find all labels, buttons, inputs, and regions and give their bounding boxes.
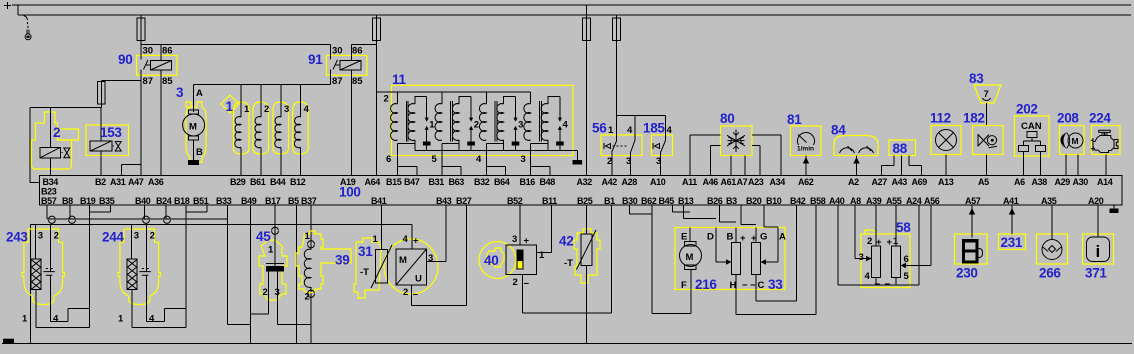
svg-text:1/min: 1/min	[797, 146, 814, 153]
svg-text:39: 39	[335, 253, 349, 268]
connector on ladder 1 under B8	[69, 216, 76, 223]
pedal pot track 1	[872, 246, 881, 278]
connector on ladder 1 under B24	[164, 216, 171, 223]
svg-text:2: 2	[150, 231, 155, 242]
svg-text:B63: B63	[449, 177, 465, 187]
svg-text:B15: B15	[386, 177, 402, 187]
pin 2 wire to B27	[412, 205, 467, 305]
svg-text:2: 2	[513, 277, 518, 288]
wire B57	[46, 205, 48, 219]
node 30-rail to relays	[141, 44, 331, 46]
svg-text:B33: B33	[216, 196, 232, 206]
air mass meter 31	[354, 205, 467, 305]
lambda probe 243	[6, 224, 89, 327]
svg-text:1: 1	[22, 314, 28, 325]
wire B58 down	[815, 205, 817, 314]
internal ground rail	[415, 150, 578, 152]
svg-text:231: 231	[1001, 235, 1023, 250]
fuse feeding ignition coils / relay 91 coil, down to A64	[375, 15, 377, 176]
svg-text:A32: A32	[577, 177, 593, 187]
svg-text:A57: A57	[965, 196, 981, 206]
svg-text:3: 3	[859, 252, 864, 263]
M/U transducer	[396, 249, 427, 285]
svg-text:B64: B64	[494, 177, 510, 187]
svg-text:230: 230	[956, 266, 978, 281]
svg-text:A61: A61	[721, 177, 737, 187]
svg-text:58: 58	[896, 220, 911, 235]
svg-text:1: 1	[608, 125, 614, 136]
wire A40 / A24 bottom rail pins 4,5	[838, 205, 919, 285]
svg-text:87: 87	[143, 76, 154, 87]
svg-text:182: 182	[963, 111, 985, 126]
svg-text:−: −	[524, 279, 530, 290]
svg-text:A34: A34	[770, 177, 786, 187]
svg-text:B20: B20	[746, 196, 762, 206]
ignition coil unit 11	[376, 72, 582, 165]
wire B45 jog to E	[672, 205, 690, 212]
svg-text:B41: B41	[371, 196, 387, 206]
wire pin 1	[132, 290, 186, 328]
svg-text:B11: B11	[542, 196, 557, 206]
svg-text:31: 31	[358, 244, 373, 259]
svg-text:A: A	[196, 88, 203, 99]
ignition transformer cylinder 3	[479, 92, 523, 151]
svg-text:A36: A36	[148, 177, 164, 187]
svg-text:-T: -T	[564, 258, 573, 269]
wire H to B58	[736, 290, 816, 315]
wire B19/B35 bridge	[89, 205, 110, 212]
wire pin 4	[51, 275, 90, 321]
svg-text:A24: A24	[906, 196, 922, 206]
svg-text:4: 4	[476, 154, 482, 165]
svg-text:87: 87	[332, 76, 343, 87]
fuel pump 230	[955, 205, 988, 280]
wire coil unit pin 5 to B31 and B63	[442, 144, 461, 176]
svg-text:2: 2	[54, 231, 59, 242]
svg-text:1: 1	[118, 314, 124, 325]
svg-text:153: 153	[100, 125, 122, 140]
engine 224	[1089, 111, 1120, 176]
wire B17 to capacitor	[274, 205, 276, 266]
svg-text:H: H	[730, 280, 737, 291]
wire coil unit pin 3 to B16 and B48	[531, 144, 550, 176]
sender 83	[969, 71, 1001, 126]
svg-text:30: 30	[143, 46, 154, 57]
svg-text:2: 2	[867, 236, 872, 247]
svg-text:2: 2	[264, 104, 269, 115]
svg-text:A41: A41	[1003, 196, 1019, 206]
svg-text:4: 4	[667, 125, 673, 136]
relay 153 and solenoid 2 feed rail from B23	[30, 108, 101, 183]
svg-text:A55: A55	[886, 196, 902, 206]
pin 3 wire from B52	[519, 205, 521, 245]
svg-text:A43: A43	[892, 177, 908, 187]
svg-text:B26: B26	[707, 196, 723, 206]
svg-text:CAN: CAN	[1021, 121, 1042, 132]
svg-text:G: G	[760, 232, 767, 243]
fuse S (over relay 90)	[140, 15, 142, 60]
AC switch 80	[690, 111, 781, 176]
potentiometer track 1	[732, 243, 741, 275]
svg-text:B40: B40	[135, 196, 151, 206]
injector coil N18	[260, 85, 262, 117]
svg-text:84: 84	[831, 123, 846, 138]
wire A39 to pin2	[875, 205, 877, 246]
heater element	[34, 224, 36, 259]
svg-text:3: 3	[134, 231, 139, 242]
svg-text:B58: B58	[810, 196, 826, 206]
svg-text:D: D	[707, 232, 714, 243]
wire relay91 87 injector feed rail	[194, 70, 331, 85]
svg-text:B57: B57	[41, 196, 57, 206]
gauges 84	[831, 123, 878, 176]
ground stub under connector box	[1113, 205, 1115, 208]
svg-text:4: 4	[563, 120, 569, 131]
connector on ladder 1 under B57	[49, 216, 56, 223]
wire pin 4	[147, 275, 186, 321]
relay 90	[118, 41, 177, 88]
wire relay91 86 feed	[352, 44, 377, 46]
svg-text:40: 40	[484, 253, 498, 268]
svg-text:5: 5	[432, 154, 438, 165]
pin 2 wire to B1	[522, 205, 611, 313]
svg-text:4: 4	[304, 104, 310, 115]
svg-text:i: i	[1096, 242, 1101, 261]
svg-text:7: 7	[984, 89, 989, 100]
relay 91	[308, 45, 367, 88]
svg-text:B52: B52	[507, 196, 523, 206]
svg-text:A46: A46	[703, 177, 719, 187]
solenoid valve 2	[32, 108, 79, 176]
thermistor	[381, 205, 383, 249]
svg-text:B: B	[727, 232, 734, 243]
ignition transformer cylinder 4	[524, 92, 569, 151]
svg-text:112: 112	[930, 111, 951, 126]
svg-text:B10: B10	[766, 196, 782, 206]
wire B20 jog to A	[764, 205, 778, 227]
svg-text:45: 45	[256, 229, 271, 244]
svg-text:224: 224	[1089, 111, 1111, 126]
internal supply rail pin2	[376, 91, 530, 93]
injector coil N17	[240, 85, 242, 117]
svg-text:B30: B30	[622, 196, 638, 206]
svg-text:6: 6	[386, 154, 391, 165]
wire pin 1	[36, 290, 89, 328]
svg-text:−: −	[750, 280, 756, 291]
svg-text:2: 2	[53, 125, 60, 140]
svg-text:3: 3	[521, 154, 526, 165]
svg-text:A23: A23	[748, 177, 764, 187]
svg-text:A31: A31	[110, 177, 126, 187]
svg-text:U: U	[415, 274, 422, 285]
svg-text:B16: B16	[520, 177, 536, 187]
wire B13 jog to D	[684, 205, 717, 218]
wire B3 jog to G	[741, 205, 756, 224]
svg-text:85: 85	[352, 76, 363, 87]
svg-text:A40: A40	[829, 196, 845, 206]
svg-text:B24: B24	[156, 196, 172, 206]
wire fuse to switches 56/185	[617, 115, 666, 117]
svg-text:83: 83	[969, 71, 984, 86]
connector box pin labels row 1	[43, 177, 1113, 187]
pin 1 wire to B11	[537, 205, 552, 252]
coolant temperature sender 42	[559, 205, 600, 343]
svg-text:11: 11	[392, 72, 406, 87]
pin 3 wire to B43	[427, 205, 447, 261]
svg-text:B3: B3	[726, 196, 737, 206]
svg-text:371: 371	[1085, 266, 1107, 281]
wire B8	[69, 205, 71, 219]
svg-text:30: 30	[332, 46, 343, 57]
svg-text:1: 1	[539, 250, 545, 261]
svg-text:B2: B2	[95, 177, 106, 187]
svg-text:B44: B44	[270, 177, 286, 187]
wiper A arrow	[765, 228, 778, 263]
svg-text:86: 86	[162, 46, 173, 57]
internal C link	[755, 275, 757, 290]
svg-text:6: 6	[904, 254, 909, 265]
svg-text:56: 56	[592, 121, 607, 136]
relay 153	[86, 108, 129, 176]
wire branch A21	[121, 165, 141, 176]
fuse feeding switch 56	[616, 15, 618, 116]
svg-text:A39: A39	[866, 196, 882, 206]
ground rail terminal	[3, 339, 14, 344]
wire coil 39 to ground rail	[310, 287, 312, 343]
svg-text:2: 2	[384, 94, 389, 105]
svg-text:A2: A2	[848, 177, 859, 187]
capacitor 45	[251, 205, 311, 324]
svg-text:3: 3	[38, 231, 43, 242]
pedal pot track 2	[892, 246, 901, 278]
svg-text:2: 2	[263, 287, 268, 298]
heater element	[130, 224, 132, 259]
svg-text:266: 266	[1039, 266, 1061, 281]
svg-text:A38: A38	[1032, 177, 1048, 187]
svg-text:A47: A47	[128, 177, 144, 187]
svg-text:1: 1	[429, 120, 435, 131]
svg-text:4: 4	[627, 125, 633, 136]
ladder 2 drop to ground rail	[30, 224, 32, 343]
connector on ladder 1 under B40	[143, 216, 150, 223]
svg-text:B43: B43	[436, 196, 452, 206]
svg-text:B61: B61	[250, 177, 266, 187]
svg-text:B19: B19	[80, 196, 96, 206]
svg-text:A10: A10	[650, 177, 666, 187]
svg-text:B12: B12	[290, 177, 306, 187]
wire B42 down	[796, 205, 798, 301]
svg-text:88: 88	[893, 141, 908, 156]
wire joining rail1 to rail2	[17, 5, 19, 15]
svg-text:M: M	[189, 122, 197, 133]
injectors 1	[221, 85, 310, 176]
svg-text:208: 208	[1057, 111, 1079, 126]
svg-text:B35: B35	[99, 196, 115, 206]
wire coil unit pin 6 to B15 and B47	[398, 144, 417, 176]
wire A55 to pin1	[895, 205, 897, 246]
svg-text:5: 5	[904, 271, 910, 282]
svg-text:B32: B32	[474, 177, 490, 187]
sensor cell	[146, 224, 148, 271]
svg-text:A27: A27	[872, 177, 888, 187]
dangling battery clamp connector on rail2	[24, 16, 32, 40]
connector box pin labels row 3	[41, 196, 1104, 206]
svg-text:1: 1	[244, 104, 250, 115]
svg-text:B37: B37	[301, 196, 317, 206]
wire B18/B51 bridge	[186, 205, 207, 212]
svg-text:3: 3	[428, 253, 433, 264]
pin 4 wire from ladder 2	[411, 224, 413, 249]
injector coil N20	[300, 85, 302, 117]
svg-text:B: B	[196, 147, 203, 158]
svg-text:33: 33	[768, 277, 783, 292]
ground rail termination	[576, 151, 578, 160]
wire C to B42	[756, 290, 797, 302]
svg-text:3: 3	[518, 120, 523, 131]
svg-text:A56: A56	[924, 196, 940, 206]
wire A8 to wiper 3	[855, 205, 867, 258]
ECU connector box 100	[40, 176, 1122, 206]
svg-text:2: 2	[403, 287, 408, 298]
svg-text:4: 4	[403, 234, 409, 245]
svg-text:42: 42	[559, 234, 573, 249]
ignition transformer cylinder 2	[435, 92, 479, 151]
wire B5 to ground rail	[296, 205, 298, 343]
svg-text:4: 4	[865, 271, 871, 282]
svg-text:M: M	[686, 252, 694, 263]
wire B49 down to ground rail	[250, 205, 252, 343]
svg-text:A13: A13	[938, 177, 954, 187]
svg-text:216: 216	[695, 277, 717, 292]
wire B26 jog to B	[720, 205, 737, 222]
accelerator pedal sender 58	[838, 205, 931, 290]
svg-text:A19: A19	[340, 177, 356, 187]
wire F to B62 run	[652, 290, 691, 314]
svg-text:B51: B51	[193, 196, 209, 206]
sensor ground ladder 2	[31, 223, 412, 225]
warning lamp 112	[930, 111, 961, 176]
svg-text:B47: B47	[404, 177, 420, 187]
svg-text:B23: B23	[41, 186, 57, 196]
svg-text:A8: A8	[850, 196, 861, 206]
svg-text:A7: A7	[737, 177, 748, 187]
svg-text:3: 3	[176, 85, 184, 100]
svg-text:B17: B17	[265, 196, 281, 206]
plus terminal label	[4, 2, 11, 9]
svg-text:B34: B34	[43, 177, 59, 187]
svg-text:A42: A42	[602, 177, 618, 187]
svg-text:B8: B8	[62, 196, 73, 206]
potentiometer track 2	[752, 243, 761, 275]
motor 3 fuel pump	[176, 85, 206, 165]
control unit 182	[963, 111, 1003, 176]
svg-text:4: 4	[53, 314, 59, 325]
svg-text:−: −	[742, 280, 748, 291]
svg-text:−: −	[413, 290, 419, 301]
wire coil unit pin 4 to B32 and B64	[486, 144, 505, 176]
wire B40	[144, 205, 146, 219]
solenoid coil 39	[296, 231, 351, 303]
svg-text:B49: B49	[241, 196, 257, 206]
supply rail 2	[18, 14, 1131, 16]
svg-text:85: 85	[162, 76, 173, 87]
wire B18 net down to lambda 244	[185, 212, 187, 327]
wire relay90 85 to A36	[160, 70, 162, 176]
control unit 88	[882, 140, 922, 176]
svg-text:90: 90	[118, 52, 132, 67]
wire relay90 87 to A47	[140, 70, 142, 176]
wire B62+B30 to motor E	[630, 205, 652, 214]
svg-text:A64: A64	[365, 177, 381, 187]
ground rail	[2, 343, 1132, 345]
svg-text:M: M	[399, 255, 407, 266]
svg-text:80: 80	[720, 111, 734, 126]
ignition transformer cylinder 1	[391, 92, 436, 151]
svg-text:B48: B48	[540, 177, 556, 187]
svg-text:-T: -T	[360, 267, 369, 278]
svg-text:B29: B29	[230, 177, 246, 187]
fuse fed from relay 90 pin 87	[101, 79, 141, 81]
svg-text:A62: A62	[798, 177, 814, 187]
wire B33 down	[228, 205, 251, 324]
wire B37 to coil 39	[310, 205, 312, 249]
throttle valve control unit 216/33	[675, 228, 786, 293]
svg-text:B18: B18	[174, 196, 190, 206]
svg-text:A14: A14	[1097, 177, 1113, 187]
switch 56	[592, 116, 642, 176]
svg-text:A30: A30	[1073, 177, 1089, 187]
svg-text:1: 1	[373, 234, 379, 245]
throttle motor	[689, 228, 691, 242]
supply rail 1 (top)	[12, 4, 1131, 6]
fan control 208	[1057, 111, 1084, 176]
injector coil N19	[280, 85, 282, 117]
svg-text:B27: B27	[456, 196, 472, 206]
svg-text:+: +	[413, 236, 419, 247]
rev counter 81	[787, 112, 821, 176]
svg-text:E: E	[681, 232, 687, 243]
svg-text:F: F	[681, 280, 687, 291]
svg-text:A28: A28	[622, 177, 638, 187]
steering control 266	[1037, 205, 1068, 280]
fuse feeding A32	[585, 5, 587, 176]
sensor cell	[50, 224, 52, 271]
svg-text:3: 3	[512, 234, 517, 245]
wire relay91 85 to A19	[351, 70, 353, 176]
svg-text:A5: A5	[978, 177, 989, 187]
svg-text:A35: A35	[1041, 196, 1057, 206]
wiper D arrow	[716, 228, 727, 263]
svg-text:1: 1	[268, 245, 274, 256]
svg-text:A: A	[779, 232, 786, 243]
svg-text:86: 86	[352, 46, 363, 57]
svg-text:81: 81	[787, 112, 802, 127]
svg-text:A29: A29	[1055, 177, 1071, 187]
switch 185	[643, 116, 673, 176]
internal H link	[735, 275, 737, 290]
svg-text:B62: B62	[641, 196, 657, 206]
svg-text:185: 185	[643, 121, 665, 136]
svg-text:244: 244	[102, 230, 124, 245]
svg-text:A11: A11	[682, 177, 697, 187]
svg-text:B31: B31	[429, 177, 445, 187]
connector 231	[999, 205, 1026, 250]
wire B24	[165, 205, 167, 219]
wire B19 net down to lambda 243	[88, 212, 90, 327]
svg-text:243: 243	[6, 230, 28, 245]
svg-text:4: 4	[149, 314, 155, 325]
lambda probe 244	[102, 224, 186, 327]
